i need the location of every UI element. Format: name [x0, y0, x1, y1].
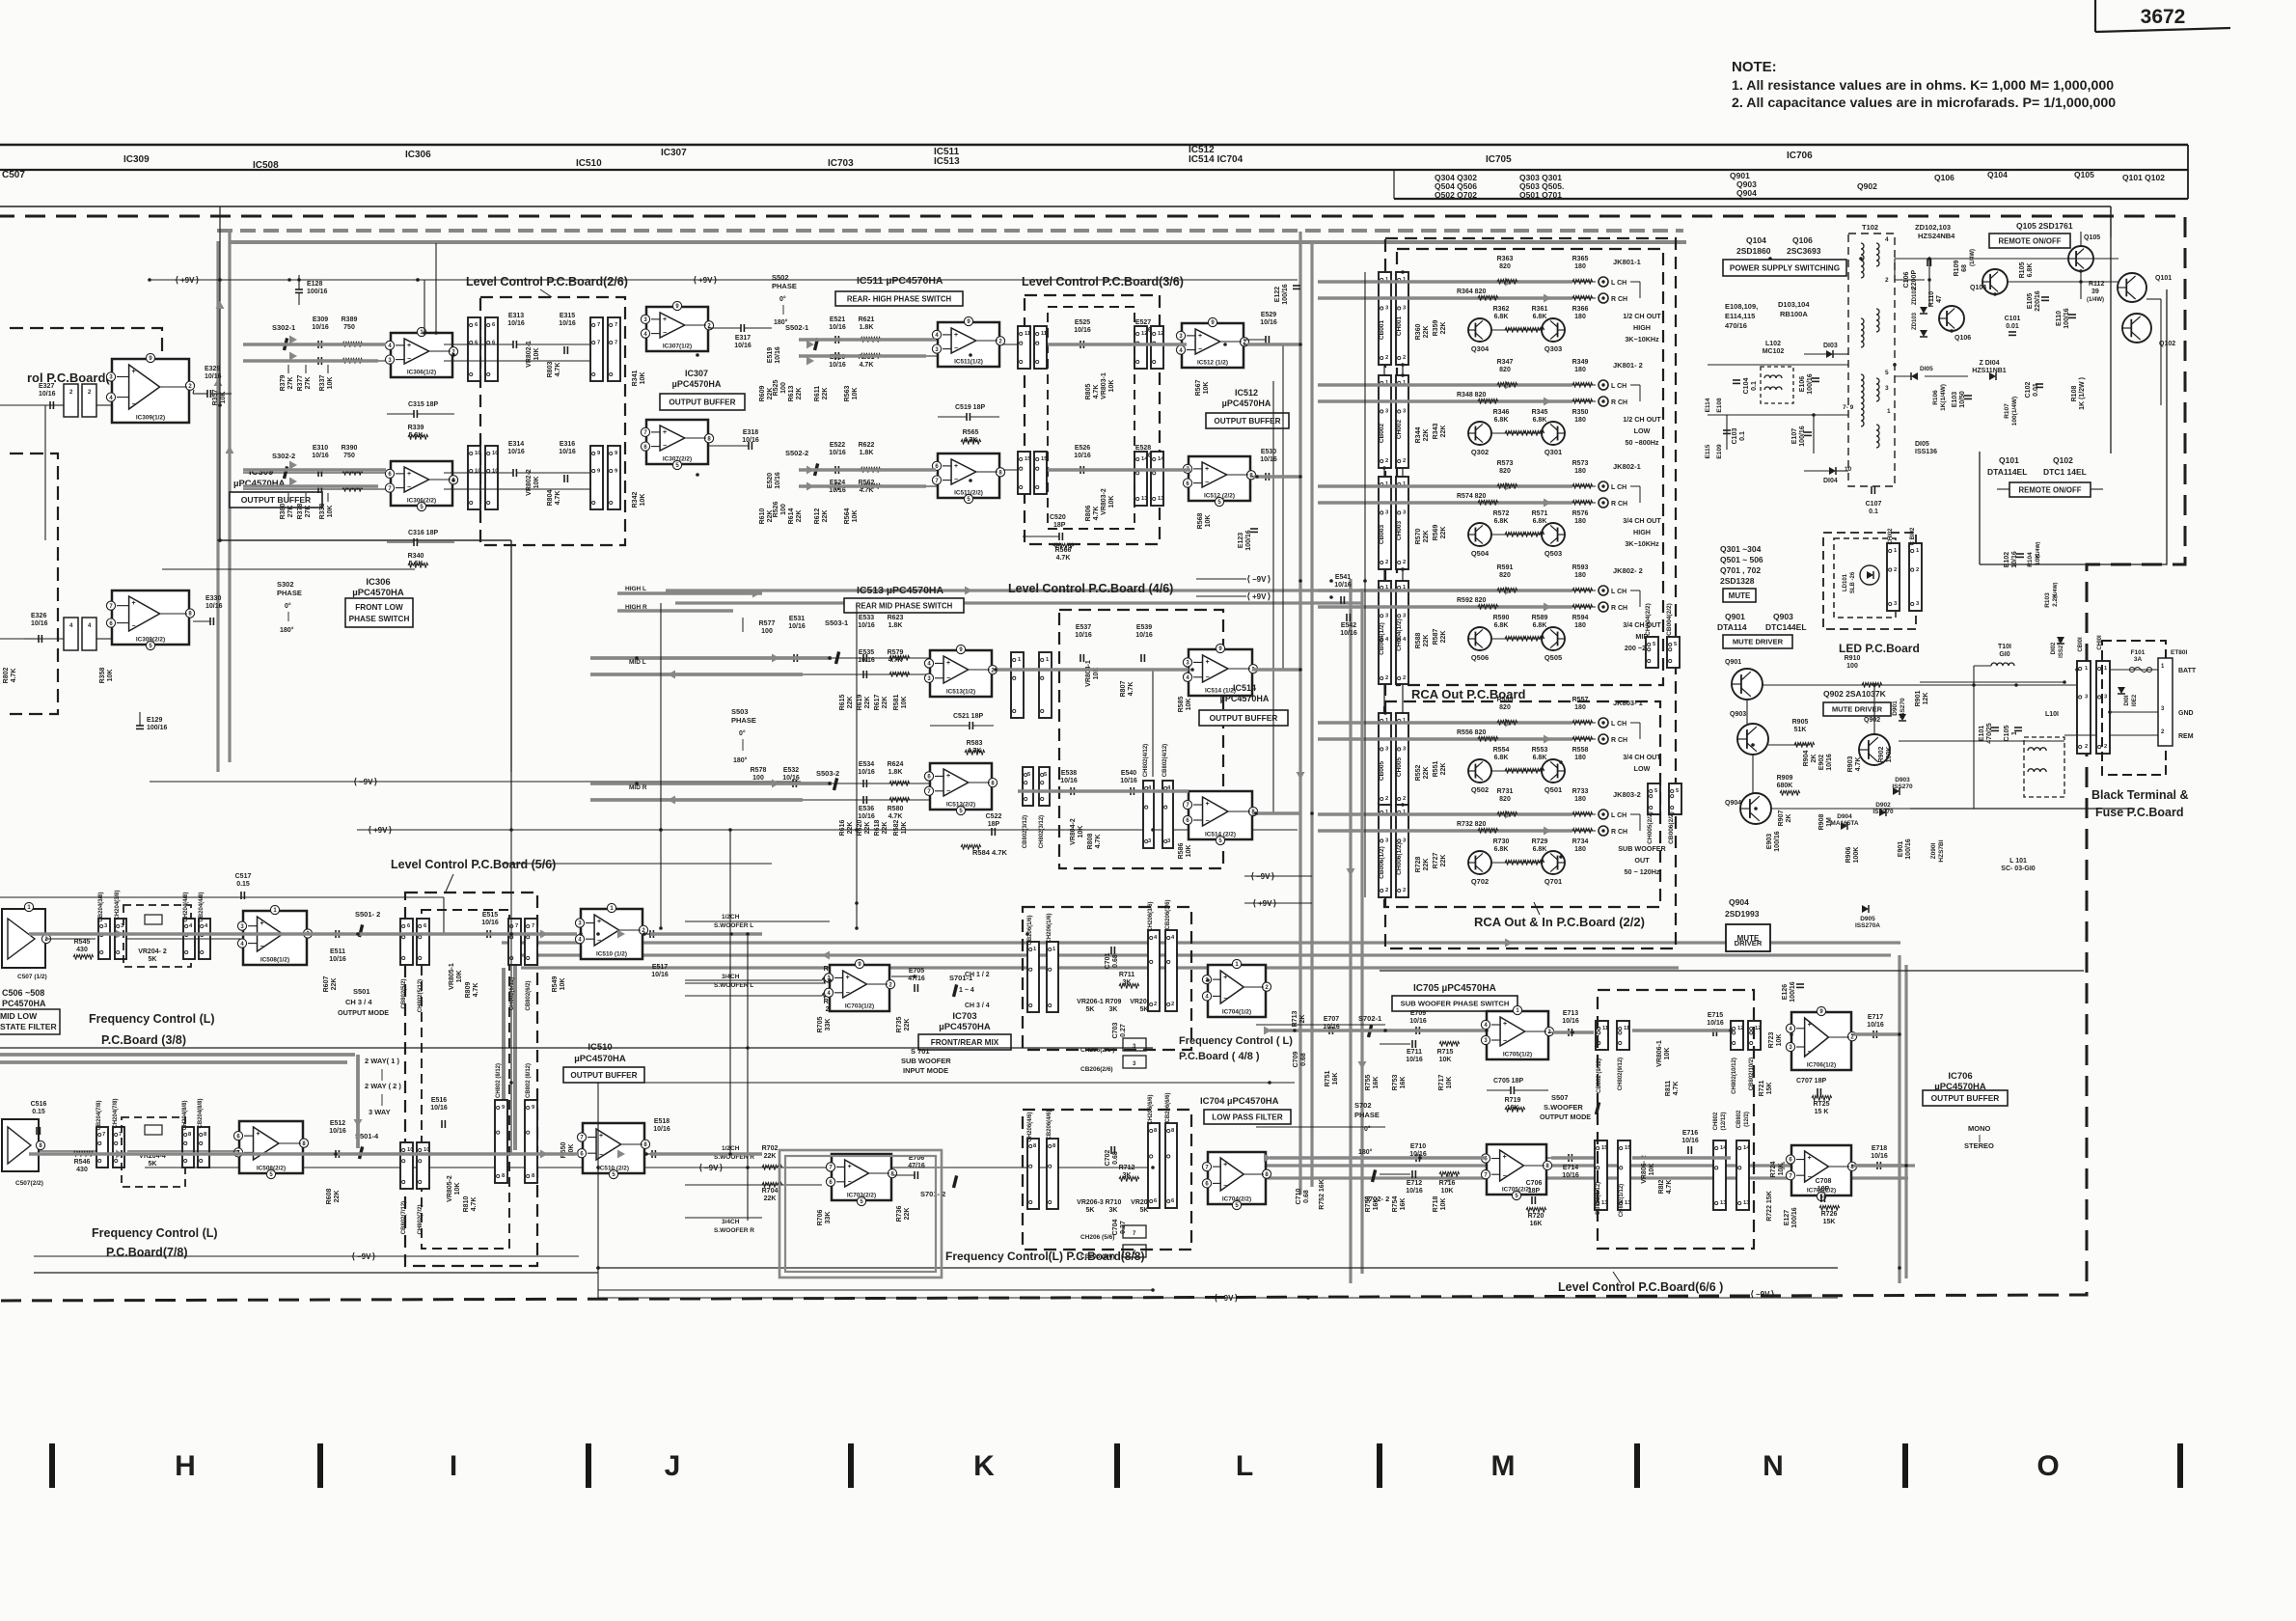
svg-text:IC513 µPC4570HA: IC513 µPC4570HA — [857, 585, 944, 596]
gray bus freq row2 overlay — [29, 1152, 579, 1155]
wire ic705 row1 — [1380, 1030, 1414, 1031]
svg-text:JK803-2: JK803-2 — [1613, 790, 1641, 799]
svg-text:6.8K: 6.8K — [1533, 417, 1547, 424]
gray bus bottom horizontal pair — [1254, 1164, 1915, 1167]
svg-text:C507: C507 — [2, 170, 25, 180]
svg-text:−: − — [597, 938, 601, 945]
svg-text:15: 15 — [1601, 1145, 1608, 1151]
connector CB204(7/8) — [96, 1127, 108, 1168]
svg-text:22K: 22K — [764, 1195, 777, 1202]
svg-text:2: 2 — [1171, 1002, 1174, 1007]
svg-text:Q501 Q701: Q501 Q701 — [1519, 190, 1562, 200]
svg-text:+: + — [848, 1164, 852, 1170]
svg-text:IC306: IC306 — [366, 577, 390, 588]
wire vertical x1330 — [1282, 344, 1284, 670]
svg-text:4.7K: 4.7K — [1128, 682, 1134, 697]
svg-text:µPC4570HA: µPC4570HA — [939, 1022, 991, 1032]
zener ZD102 — [1920, 307, 1927, 314]
svg-text:R594: R594 — [1572, 615, 1589, 621]
svg-text:3K: 3K — [1109, 1006, 1118, 1013]
svg-text:REM: REM — [2178, 733, 2194, 740]
svg-text:R339: R339 — [408, 425, 424, 431]
svg-text:180: 180 — [1574, 314, 1586, 320]
board outline VR204-4 dashed — [122, 1117, 185, 1187]
connector CB004(2/2) — [1667, 637, 1680, 668]
svg-text:⟨: ⟨ — [175, 275, 178, 285]
gray bus right vertical pair — [1898, 955, 1900, 1283]
svg-text:10/16: 10/16 — [651, 972, 669, 978]
label box OUTPUT BUFFER IC307 — [660, 394, 745, 410]
svg-text:22K: 22K — [796, 510, 803, 523]
svg-text:R727: R727 — [1433, 853, 1439, 869]
svg-text:1K (1/2W ): 1K (1/2W ) — [2079, 377, 2086, 410]
svg-text:S503-1: S503-1 — [825, 618, 848, 627]
svg-text:+: + — [846, 975, 850, 981]
svg-text:R346: R346 — [1493, 409, 1510, 416]
svg-text:22K: 22K — [847, 822, 854, 835]
svg-text:E901: E901 — [1898, 841, 1904, 857]
svg-text:⟨: ⟨ — [1250, 871, 1254, 881]
capacitor E311 — [317, 357, 319, 365]
wire RCH row JK802- 2 — [1408, 606, 1596, 608]
svg-text:10/16: 10/16 — [1074, 327, 1091, 334]
svg-text:SUB WOOFER PHASE SWITCH: SUB WOOFER PHASE SWITCH — [1401, 1000, 1510, 1008]
svg-text:E127: E127 — [1784, 1210, 1790, 1225]
svg-text:STEREO: STEREO — [1964, 1141, 1994, 1150]
svg-text:4.7K: 4.7K — [1056, 555, 1071, 562]
svg-text:IC705 µPC4570HA: IC705 µPC4570HA — [1413, 983, 1496, 994]
svg-text:VR803-2: VR803-2 — [1101, 488, 1107, 515]
svg-text:Q101: Q101 — [1999, 455, 2019, 465]
svg-text:E123: E123 — [1238, 533, 1244, 548]
svg-text:VR206-3: VR206-3 — [1077, 1199, 1104, 1206]
svg-text:10/16: 10/16 — [1562, 1018, 1579, 1025]
svg-text:CH006(1/2): CH006(1/2) — [1396, 842, 1403, 875]
svg-text:0.68: 0.68 — [1112, 954, 1119, 968]
diode D902 — [1879, 809, 1886, 816]
connector CB204(3/8) — [98, 919, 110, 959]
svg-text:10K: 10K — [1441, 1188, 1454, 1195]
svg-text:C BI02: C BI02 — [1910, 527, 1916, 545]
op-amp IC307(2/2) — [646, 420, 708, 464]
svg-text:CH802(4/12): CH802(4/12) — [1143, 744, 1149, 777]
gray arrows stage inputs — [289, 336, 297, 344]
board outline Level Control P.C.Board(2/6) — [480, 297, 625, 545]
board outline VR204-2 dashed — [123, 905, 191, 967]
board outline Level Control 6/6 dashed — [1598, 990, 1754, 1249]
svg-text:22K: 22K — [331, 978, 338, 991]
svg-text:39: 39 — [2091, 288, 2099, 295]
gray arrows vertical buses — [216, 301, 225, 309]
connector CB802(4/12) — [1162, 781, 1173, 848]
svg-text:2: 2 — [1403, 560, 1406, 565]
svg-text:50 − 120Hz: 50 − 120Hz — [1625, 867, 1660, 876]
power rail -9V rca — [1244, 875, 1312, 877]
svg-text:MA165TA: MA165TA — [1830, 820, 1858, 827]
svg-text:C703: C703 — [1112, 1023, 1119, 1039]
svg-text:180: 180 — [1574, 572, 1586, 579]
svg-text:22K: 22K — [1423, 635, 1430, 647]
svg-text:E511: E511 — [330, 948, 345, 955]
svg-text:CB802: CB802 — [1736, 1110, 1742, 1128]
svg-text:R CH: R CH — [1611, 296, 1627, 303]
svg-text:13: 13 — [1743, 1200, 1750, 1206]
svg-text:R348 820: R348 820 — [1457, 392, 1486, 398]
svg-text:INPUT MODE: INPUT MODE — [903, 1066, 948, 1075]
svg-text:ISS270: ISS270 — [2059, 638, 2064, 657]
svg-text:R752 16K: R752 16K — [1319, 1179, 1326, 1210]
svg-text:µPC4570HA: µPC4570HA — [352, 588, 404, 598]
svg-text:S.WOOFER R: S.WOOFER R — [714, 1227, 754, 1234]
svg-text:IC512 (1/2): IC512 (1/2) — [1197, 360, 1228, 367]
transistor Q901 — [1732, 669, 1763, 700]
svg-text:22K: 22K — [864, 822, 871, 835]
svg-text:22K: 22K — [1423, 429, 1430, 442]
gray bus row1 overlays — [243, 343, 386, 345]
connector CH006(2/2) — [1648, 783, 1660, 814]
board outline dashed fragment left — [10, 328, 162, 415]
svg-text:2: 2 — [1403, 458, 1406, 464]
connector CB802(12/12) — [1736, 1140, 1749, 1210]
diode D103 — [1826, 350, 1833, 358]
svg-text:2: 2 — [1154, 1002, 1157, 1007]
svg-text:Q303: Q303 — [1544, 344, 1562, 353]
svg-text:IC704(1/2): IC704(1/2) — [1222, 1009, 1251, 1016]
svg-text:2: 2 — [1885, 277, 1889, 284]
svg-text:R CH: R CH — [1611, 737, 1627, 744]
svg-text:10/16: 10/16 — [1260, 456, 1277, 463]
svg-text:CB204(7/8): CB204(7/8) — [96, 1100, 102, 1130]
transistor Q501 — [1542, 759, 1565, 783]
svg-text:IC510 (1/2): IC510 (1/2) — [596, 951, 627, 958]
svg-text:R109: R109 — [1954, 261, 1960, 277]
svg-text:−9V: −9V — [359, 778, 373, 786]
svg-text:R360: R360 — [1415, 324, 1422, 341]
jack JK801- 2 LCH — [1599, 380, 1608, 390]
svg-text:D902: D902 — [1875, 802, 1891, 809]
svg-text:Q901: Q901 — [1725, 659, 1741, 666]
op-amp IC507(2/2) — [2, 1119, 39, 1171]
wire front low block — [217, 539, 511, 541]
ruler tick 8 — [1902, 1443, 1908, 1488]
power rail -9V right — [1196, 578, 1246, 580]
svg-text:ISS270: ISS270 — [1892, 783, 1913, 790]
svg-text:−9V: −9V — [1219, 1294, 1234, 1303]
connector CH802(4/12) — [1143, 781, 1154, 848]
op-amp IC512(1/2) — [1182, 323, 1244, 368]
svg-text:E518: E518 — [654, 1118, 670, 1125]
wire vertical x757 — [729, 830, 731, 1154]
svg-text:MID L: MID L — [629, 659, 646, 666]
svg-text:CH004(1/2): CH004(1/2) — [1396, 618, 1403, 651]
svg-text:I0E2: I0E2 — [2132, 694, 2138, 706]
svg-text:10/16: 10/16 — [1707, 1020, 1724, 1027]
svg-text:4.7K: 4.7K — [860, 362, 874, 369]
op-amp IC511(2/2) — [938, 453, 999, 498]
svg-text:+: + — [260, 920, 263, 927]
svg-text:+: + — [597, 919, 601, 925]
svg-text:R908: R908 — [1818, 814, 1825, 831]
svg-text:IC307(1/2): IC307(1/2) — [663, 343, 692, 350]
svg-text:R622: R622 — [859, 442, 875, 449]
svg-text:18P: 18P — [1053, 522, 1066, 529]
svg-text:R722 15K: R722 15K — [1766, 1191, 1773, 1222]
wire long vertical x228 — [219, 206, 221, 540]
svg-text:6.8K: 6.8K — [1494, 417, 1509, 424]
svg-text:E106: E106 — [1799, 376, 1806, 392]
connector CB001 — [1379, 272, 1391, 365]
svg-text:100/16: 100/16 — [1790, 981, 1796, 1003]
svg-text:820: 820 — [1499, 263, 1511, 270]
svg-text:0.1: 0.1 — [1739, 431, 1746, 441]
svg-text:5K: 5K — [149, 1161, 157, 1168]
svg-text:R573: R573 — [1572, 460, 1589, 467]
svg-text:R905: R905 — [1792, 719, 1809, 726]
svg-text:⟩: ⟩ — [389, 825, 393, 835]
svg-text:IC508(1/2): IC508(1/2) — [260, 957, 289, 964]
svg-text:ISS136: ISS136 — [1915, 449, 1937, 455]
svg-text:R570: R570 — [1415, 529, 1422, 545]
svg-text:10/16: 10/16 — [742, 437, 759, 444]
svg-text:R576: R576 — [1572, 510, 1589, 517]
connector CH802(7/12) — [417, 1142, 429, 1189]
svg-text:R106: R106 — [1932, 390, 1939, 405]
svg-text:Q102: Q102 — [2053, 455, 2073, 465]
svg-text:⟩: ⟩ — [196, 275, 200, 285]
wire vertical x1415 rca — [1364, 272, 1366, 897]
wire row1 conn — [1048, 343, 1134, 345]
svg-text:10K: 10K — [1446, 1077, 1453, 1089]
svg-text:14: 14 — [1158, 456, 1164, 462]
svg-text:0.01: 0.01 — [2006, 323, 2019, 330]
svg-text:DI04: DI04 — [1823, 478, 1838, 484]
wire LCH row JK803-2 — [1408, 813, 1596, 815]
wire top band line 2 — [0, 169, 2188, 171]
svg-text:Black Terminal &: Black Terminal & — [2091, 788, 2189, 802]
svg-text:0.15: 0.15 — [236, 881, 250, 888]
connector CB802(8/12) — [525, 1100, 537, 1183]
connector CH802(1/12) — [1039, 652, 1052, 718]
svg-text:R615: R615 — [839, 695, 846, 711]
diode D102 — [2057, 637, 2064, 644]
transistor Q304 — [1468, 318, 1491, 342]
svg-text:5: 5 — [1885, 370, 1889, 376]
svg-text:R587: R587 — [1433, 629, 1439, 646]
svg-text:R726: R726 — [1821, 1211, 1838, 1218]
wire dash-box internal IC306(2/2) — [444, 472, 513, 474]
svg-text:E902: E902 — [1818, 755, 1825, 770]
svg-text:MUTE: MUTE — [1729, 591, 1751, 600]
svg-text:E529: E529 — [1261, 312, 1276, 318]
svg-text:µPC4570HA: µPC4570HA — [672, 379, 722, 389]
svg-text:6.8K: 6.8K — [1494, 846, 1509, 853]
svg-text:µPC4570HA: µPC4570HA — [1222, 398, 1271, 408]
svg-text:R549: R549 — [552, 976, 559, 993]
svg-text:−9V: −9V — [357, 1252, 371, 1261]
svg-text:1.8K: 1.8K — [860, 450, 874, 456]
svg-text:E327: E327 — [39, 383, 54, 390]
svg-text:−: − — [1808, 1174, 1812, 1181]
svg-text:10/16: 10/16 — [829, 362, 846, 369]
svg-text:R572: R572 — [1493, 510, 1510, 517]
svg-text:16K: 16K — [1530, 1221, 1543, 1227]
svg-text:OUTPUT MODE: OUTPUT MODE — [338, 1008, 389, 1017]
svg-text:PHASE SWITCH: PHASE SWITCH — [349, 615, 410, 623]
svg-text:R555: R555 — [1497, 697, 1514, 703]
svg-text:CB206(6/6): CB206(6/6) — [1165, 1092, 1171, 1122]
svg-text:⟨: ⟨ — [1246, 591, 1250, 601]
svg-text:10/16: 10/16 — [481, 920, 499, 926]
svg-text:100/16: 100/16 — [1791, 1207, 1798, 1228]
box power right area — [1980, 289, 2167, 564]
svg-text:+: + — [132, 369, 136, 375]
svg-text:R563: R563 — [844, 386, 851, 402]
op-amp IC508(2/2) — [239, 1121, 303, 1173]
svg-text:R751: R751 — [1325, 1071, 1331, 1087]
svg-text:E715: E715 — [1708, 1012, 1723, 1019]
svg-text:13: 13 — [1625, 1200, 1631, 1206]
connector CB801(9/12) — [1018, 326, 1030, 369]
wire RCH row JK802-1 — [1408, 502, 1596, 504]
jack JK803-2 LCH — [1599, 810, 1608, 819]
svg-text:IC511 µPC4570HA: IC511 µPC4570HA — [857, 275, 943, 287]
svg-text:C506 ~508: C506 ~508 — [2, 988, 44, 998]
svg-text:L CH: L CH — [1611, 280, 1626, 287]
svg-text:CB006(1/2): CB006(1/2) — [1379, 846, 1385, 879]
svg-text:R344: R344 — [1415, 427, 1422, 444]
svg-text:0°: 0° — [1364, 1125, 1371, 1133]
svg-text:R906: R906 — [1845, 847, 1852, 864]
svg-text:6.8K: 6.8K — [1533, 622, 1547, 629]
wire IC309 output — [193, 390, 194, 394]
connector CH204(4/8) — [183, 919, 195, 959]
svg-text:12: 12 — [1158, 331, 1163, 337]
svg-text:E542: E542 — [1341, 622, 1356, 629]
svg-text:Q506: Q506 — [1471, 653, 1489, 662]
svg-text:R624: R624 — [888, 761, 904, 768]
svg-text:R802: R802 — [3, 668, 10, 684]
svg-text:R809: R809 — [465, 982, 472, 999]
svg-text:3: 3 — [1885, 385, 1889, 392]
svg-text:10/16: 10/16 — [1406, 1188, 1423, 1195]
svg-text:R712: R712 — [1119, 1165, 1135, 1171]
svg-text:2: 2 — [1403, 355, 1406, 361]
svg-text:ET80I: ET80I — [2171, 649, 2188, 656]
svg-text:10K: 10K — [107, 670, 114, 682]
transistor Q903 — [1737, 724, 1768, 755]
connector CB802(10/12) — [1748, 1021, 1761, 1050]
wire ic513 long link — [742, 618, 744, 632]
svg-text:10K: 10K — [901, 822, 908, 835]
svg-text:⟩: ⟩ — [374, 777, 378, 786]
svg-text:C707 18P: C707 18P — [1796, 1078, 1826, 1085]
gray bus freq row1 overlay — [29, 932, 577, 935]
svg-text:3K: 3K — [1109, 1207, 1118, 1214]
connector CH001 — [1396, 272, 1408, 365]
svg-text:PHASE: PHASE — [731, 716, 756, 725]
wire transistor link JK801- 2 — [1491, 432, 1542, 434]
transistor Q504 — [1468, 523, 1491, 546]
svg-text:⟩: ⟩ — [1268, 574, 1271, 584]
svg-text:IC513(1/2): IC513(1/2) — [946, 689, 975, 696]
svg-text:VR803-1: VR803-1 — [1101, 372, 1107, 399]
svg-text:Level Control P.C.Board(3/6): Level Control P.C.Board(3/6) — [1022, 275, 1184, 288]
svg-text:10/16: 10/16 — [559, 449, 576, 455]
wire long horizontal y590 — [162, 568, 415, 570]
wire bottom left rail — [34, 1272, 598, 1274]
svg-text:R345: R345 — [1532, 409, 1548, 416]
svg-text:15: 15 — [1025, 456, 1031, 462]
connector CH002 — [1396, 375, 1408, 468]
svg-text:E309: E309 — [313, 316, 328, 323]
svg-text:4.7K: 4.7K — [1093, 507, 1100, 521]
svg-text:18P: 18P — [988, 821, 1000, 828]
svg-text:R754: R754 — [1392, 1196, 1399, 1213]
svg-text:Q106: Q106 — [1954, 335, 1971, 342]
wire vertical right border — [2110, 206, 2112, 453]
svg-text:−: − — [599, 1152, 603, 1159]
svg-text:CBI0I: CBI0I — [2078, 637, 2084, 652]
svg-text:IC706(1/2): IC706(1/2) — [1807, 1062, 1836, 1069]
svg-text:2K: 2K — [1786, 814, 1792, 823]
svg-text:22K: 22K — [882, 822, 888, 835]
svg-text:T10I: T10I — [1998, 644, 2011, 650]
svg-text:RT25: RT25 — [1813, 1101, 1829, 1108]
svg-text:R619: R619 — [857, 695, 863, 711]
svg-text:7: 7 — [615, 322, 617, 328]
svg-text:E515: E515 — [482, 912, 498, 919]
svg-text:S302: S302 — [277, 580, 294, 589]
connector CB206(3/6) — [1165, 930, 1177, 1011]
svg-text:15: 15 — [1041, 456, 1048, 462]
svg-text:33K: 33K — [825, 1212, 832, 1224]
svg-text:15 K: 15 K — [1815, 1109, 1829, 1115]
svg-text:3: 3 — [1133, 1061, 1136, 1067]
connector CB206(4/6) — [1047, 1139, 1058, 1209]
svg-text:R551: R551 — [1433, 761, 1439, 778]
svg-text:R558: R558 — [1572, 747, 1589, 754]
svg-text:1 ~ 4: 1 ~ 4 — [959, 987, 974, 994]
svg-text:10: 10 — [407, 1147, 413, 1153]
svg-text:10/16: 10/16 — [734, 343, 752, 349]
svg-text:+9V: +9V — [180, 276, 195, 285]
svg-text:10K: 10K — [1108, 380, 1115, 393]
svg-text:E531: E531 — [789, 616, 805, 622]
svg-text:S501: S501 — [353, 987, 370, 996]
svg-text:R341: R341 — [632, 371, 639, 387]
svg-text:CH802(10/12): CH802(10/12) — [1732, 1058, 1737, 1094]
svg-text:HZS7BI: HZS7BI — [1938, 839, 1945, 862]
svg-text:CH 3 / 4: CH 3 / 4 — [965, 1003, 990, 1009]
gray bus mid row4 — [590, 782, 832, 785]
svg-text:4.7K: 4.7K — [1093, 385, 1100, 399]
svg-text:Level Control P.C.Board(2/6): Level Control P.C.Board(2/6) — [466, 275, 628, 288]
svg-text:E110: E110 — [2056, 311, 2063, 326]
svg-text:+: + — [1808, 1155, 1812, 1162]
svg-text:4.7K: 4.7K — [1673, 1082, 1680, 1096]
svg-text:R710: R710 — [1106, 1199, 1122, 1206]
svg-text:R358: R358 — [99, 668, 106, 684]
gray bus freq left pair — [0, 1053, 355, 1057]
svg-text:10K: 10K — [1439, 1057, 1452, 1063]
svg-text:2SD1860: 2SD1860 — [1736, 246, 1771, 256]
svg-text:10/16: 10/16 — [1409, 1018, 1427, 1025]
svg-text:N: N — [1763, 1450, 1784, 1482]
svg-text:CB005: CB005 — [1379, 760, 1385, 781]
svg-text:180: 180 — [1574, 704, 1586, 711]
svg-text:P.C.Board(7/8): P.C.Board(7/8) — [106, 1246, 188, 1259]
connector CH006(1/2) — [1396, 805, 1408, 897]
